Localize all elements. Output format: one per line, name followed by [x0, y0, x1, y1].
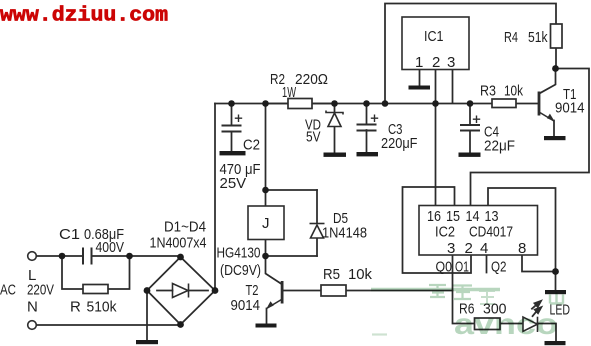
- svg-text:R: R: [70, 299, 81, 316]
- resistor R3: [492, 99, 516, 108]
- svg-text:D1~D4: D1~D4: [164, 219, 206, 236]
- wire IC1 pin 1 to ground: [419, 70, 421, 86]
- node dot rail relay branch: [262, 100, 269, 107]
- wire relay top node to D5 top: [266, 189, 318, 191]
- wire T2 base to R5: [283, 290, 321, 292]
- svg-text:25V: 25V: [220, 175, 247, 192]
- svg-text:400V: 400V: [96, 239, 125, 256]
- svg-text:2: 2: [465, 240, 473, 257]
- svg-text:13: 13: [485, 208, 499, 225]
- wire T1 emitter to ground: [553, 121, 555, 137]
- node dot relay top: [262, 187, 269, 194]
- wire relay branch down from rail: [265, 104, 267, 191]
- svg-text:1N4148: 1N4148: [322, 225, 367, 242]
- plus sign C4: [473, 116, 480, 124]
- svg-text:3: 3: [447, 54, 455, 71]
- wire main DC rail: [215, 103, 470, 105]
- wire relay J leads: [265, 190, 267, 256]
- svg-text:LED: LED: [550, 302, 571, 319]
- svg-text:220μF: 220μF: [381, 135, 418, 152]
- wire relay bottom node to D5 bottom: [266, 255, 318, 257]
- wire IC2 pin 13 loop to ground node: [488, 188, 556, 272]
- wire ground node down: [555, 272, 557, 291]
- IC1 box: [402, 17, 469, 70]
- wire LED cathode to ground: [537, 324, 556, 342]
- svg-text:R3: R3: [480, 83, 496, 100]
- svg-text:8: 8: [518, 240, 526, 257]
- resistor R4: [551, 24, 563, 48]
- green watermark: [371, 284, 564, 341]
- node dot relay bottom: [262, 253, 269, 260]
- svg-text:9014: 9014: [555, 100, 585, 117]
- svg-text:Q2: Q2: [491, 259, 507, 276]
- LED diode: [523, 317, 538, 332]
- node dot bridge top: [177, 254, 184, 261]
- IC2 box: [419, 206, 538, 256]
- node dot bridge bottom: [177, 321, 184, 328]
- node dot C1 right: [126, 253, 133, 260]
- svg-text:C2: C2: [243, 137, 260, 154]
- wire R 510k branch: [62, 256, 130, 289]
- svg-text:3: 3: [447, 240, 455, 257]
- svg-text:510k: 510k: [87, 299, 117, 316]
- svg-text:IC2: IC2: [435, 224, 455, 241]
- wire bridge right vertex up to DC rail: [214, 104, 216, 291]
- capacitor C1 plates: [82, 248, 93, 265]
- svg-text:10k: 10k: [504, 83, 523, 100]
- terminal N: [28, 321, 37, 330]
- svg-text:51k: 51k: [528, 29, 548, 46]
- wire N terminal to bridge bottom: [37, 324, 181, 326]
- wire IC1 pin 3 to rail: [452, 70, 454, 104]
- svg-text:220Ω: 220Ω: [295, 71, 328, 88]
- wire rail branch up and across top to R4: [385, 4, 556, 104]
- node dot rail C2: [228, 100, 235, 107]
- wire IC2 pin 8 to ground node: [522, 255, 556, 272]
- svg-text:14: 14: [466, 208, 480, 225]
- wire IC2 pin 15 loop to pin 2: [403, 187, 472, 273]
- wire bridge left vertex to ground: [146, 291, 148, 341]
- svg-text:R5: R5: [323, 266, 340, 283]
- svg-text:CD4017: CD4017: [469, 224, 513, 241]
- resistor R6: [475, 318, 501, 330]
- wire L terminal to C1 and bridge top: [37, 255, 181, 257]
- svg-text:HG4130: HG4130: [217, 245, 261, 262]
- wire IC1 pin 2 down through rail to IC2 pin 16: [435, 70, 437, 206]
- wire T1 collector segment: [540, 69, 555, 94]
- node dot T1 collector: [552, 65, 559, 72]
- svg-text:15: 15: [446, 208, 460, 225]
- plus sign C3: [371, 115, 378, 123]
- zener VD: [326, 111, 343, 127]
- node dot rail C3: [363, 100, 370, 107]
- svg-text:C1: C1: [59, 226, 80, 243]
- svg-text:5V: 5V: [306, 129, 321, 146]
- wire R4 bottom to T1 collector node: [555, 48, 557, 69]
- node dot C1 left: [59, 253, 66, 260]
- svg-text:R4: R4: [504, 29, 518, 46]
- wire R3 to T1 base: [516, 103, 538, 105]
- node dot rail C4 R3: [467, 100, 474, 107]
- svg-text:10k: 10k: [348, 266, 372, 283]
- svg-text:4: 4: [480, 240, 488, 257]
- svg-text:R6: R6: [459, 301, 475, 318]
- svg-text:1N4007x4: 1N4007x4: [150, 235, 207, 252]
- svg-text:220V: 220V: [27, 282, 54, 299]
- svg-text:9014: 9014: [231, 297, 261, 314]
- ground C3: [357, 152, 379, 156]
- node dot bridge right: [212, 287, 219, 294]
- ground IC2: [545, 290, 566, 294]
- wire T1 collector node loop to IC2 pin 14: [471, 69, 590, 206]
- transistor T2: [266, 281, 283, 309]
- ground IC1 pin1: [409, 86, 431, 90]
- svg-text:L: L: [28, 267, 36, 284]
- capacitor C3 plates: [357, 124, 377, 132]
- wire C2 leads: [231, 104, 233, 152]
- svg-text:www.dziuu.com: www.dziuu.com: [0, 5, 168, 28]
- svg-text:16: 16: [427, 208, 441, 225]
- ground VD: [324, 153, 347, 157]
- svg-text:O1: O1: [455, 259, 469, 276]
- node dot IC2 pins 8 13: [552, 268, 559, 275]
- ground C2: [220, 151, 246, 155]
- ground LED: [545, 341, 566, 345]
- node dot bridge left: [144, 287, 151, 294]
- wire VD leads: [334, 104, 336, 153]
- wire R2 leads: [266, 103, 335, 105]
- wire T2 collector from relay node: [266, 256, 281, 284]
- wire IC2 pin 3 Q0 down to R6: [453, 255, 475, 324]
- wire R5 to IC2 pin3 wire: [346, 290, 453, 292]
- svg-text:N: N: [27, 299, 38, 316]
- relay J box: [248, 206, 284, 240]
- LED arrows: [531, 301, 541, 317]
- svg-text:1W: 1W: [282, 84, 297, 101]
- diode inside bridge: [173, 284, 189, 298]
- capacitor C4 plates: [460, 124, 480, 132]
- plus sign C2: [235, 115, 242, 123]
- terminal L: [28, 252, 37, 261]
- wire C4 leads: [469, 104, 471, 153]
- resistor R 510k: [83, 285, 108, 294]
- svg-text:AC: AC: [0, 282, 16, 299]
- wire rail to R3: [470, 103, 492, 105]
- node dot rail IC1 pin2: [432, 100, 439, 107]
- wire bridge inner diode line: [157, 290, 208, 292]
- diode D5: [310, 224, 325, 239]
- wire D5 leads: [316, 190, 318, 256]
- ground T1: [544, 136, 566, 140]
- ground T2: [256, 324, 277, 328]
- ground bridge: [136, 340, 158, 344]
- resistor R2: [288, 99, 312, 109]
- resistor R5: [321, 285, 346, 296]
- node dot rail VD: [331, 100, 338, 107]
- svg-text:Q0: Q0: [436, 259, 453, 276]
- node dot rail top branch: [382, 100, 389, 107]
- transistor T1: [538, 92, 555, 122]
- wire C3 leads: [366, 104, 368, 153]
- svg-text:IC1: IC1: [424, 28, 444, 45]
- ground C4: [459, 153, 481, 157]
- capacitor C2 plates: [222, 125, 242, 133]
- diode bridge D1~D4 outline: [147, 257, 215, 325]
- svg-text:22μF: 22μF: [484, 138, 515, 155]
- svg-text:2: 2: [432, 54, 440, 71]
- wire IC2 pin 4 stub: [486, 255, 488, 273]
- svg-text:1: 1: [415, 54, 423, 71]
- svg-text:J: J: [262, 215, 270, 232]
- svg-text:(DC9V): (DC9V): [220, 262, 261, 279]
- wire T2 emitter to ground: [266, 309, 268, 324]
- svg-text:300: 300: [483, 301, 507, 318]
- wire R6 to LED anode: [500, 323, 522, 325]
